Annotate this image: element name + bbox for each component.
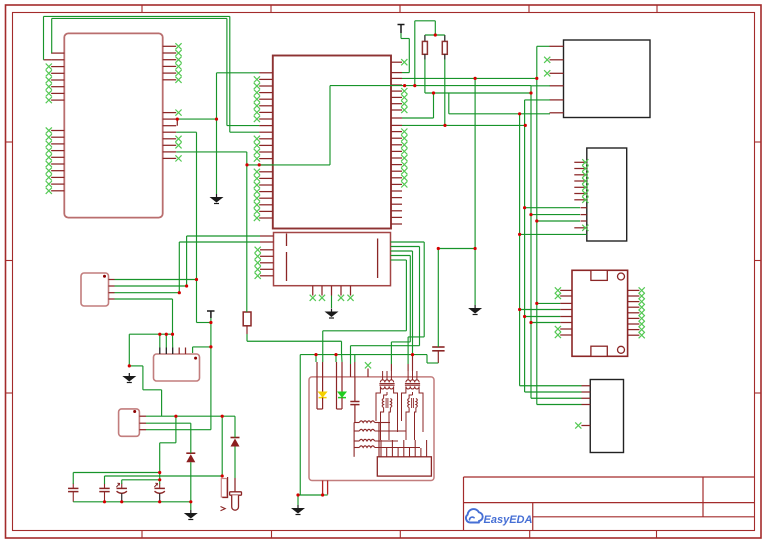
wire bundle3 to U6: [531, 397, 582, 399]
wire bundle2 to U6: [525, 391, 582, 393]
ground G2: [331, 309, 333, 312]
power module PS1 (bottom middle box): [309, 377, 434, 481]
U1 left pins upper group: [46, 53, 65, 103]
wire U2 sub pin242 from left: [179, 242, 260, 293]
inductor winding L4: [359, 446, 374, 448]
wire U2 sub right pin255: [391, 256, 411, 365]
wire bundle3 to U4: [531, 214, 580, 216]
wire U2 sub pin236 from left: [187, 236, 260, 286]
wire U2 sub right pin251: [391, 251, 413, 355]
wire U7 pin2 net: [115, 285, 187, 287]
U7 right pins: [109, 280, 115, 300]
capacitor C2: [99, 487, 109, 489]
module output connector block: [377, 457, 431, 476]
wire T power top to U2 pin72: [401, 33, 409, 73]
wire U7 pin3 net: [115, 292, 180, 294]
wire bundle2 to U5: [525, 316, 561, 318]
TP1 red lead: [234, 478, 236, 492]
wire U2 pin125 bundle2 join: [524, 124, 526, 125]
U2 lower section left X pins: [255, 247, 274, 279]
IC U7 (small 4-pin): [81, 273, 109, 306]
module bottom pins: [322, 481, 324, 495]
title block: [464, 477, 755, 531]
wire U2 pin165 bus over IC: [247, 86, 405, 165]
U2 lower section left wired pin stubs: [260, 235, 274, 237]
wire ground rail bottom left: [73, 502, 191, 510]
wire U8 pin2 to D1: [146, 423, 191, 453]
wire Q1 pin5 to VCC vertical: [193, 347, 211, 353]
wire bundle1 to U6: [520, 385, 582, 387]
wire U2 sub right pin242: [391, 242, 425, 364]
U5 bottom right circle: [618, 346, 625, 353]
wire bundle3 to U5: [531, 322, 560, 324]
wire U2 sub mid pin to G2: [331, 296, 333, 309]
U8 right pins: [139, 416, 146, 430]
wire bundle4 down: [536, 78, 538, 404]
wire bundle2 to U4: [525, 207, 580, 209]
ground G4: [128, 373, 130, 376]
wire U1 pin152 to R3: [176, 152, 247, 312]
wire U7 pin4 to oscillator rail: [115, 299, 173, 334]
U4 left pins with no-connect marks: [574, 159, 588, 231]
wire resistor tops tie: [425, 34, 445, 36]
U5 left pins: [555, 287, 572, 338]
resistor R2: [444, 35, 446, 41]
inductor winding L3: [359, 439, 374, 441]
wire VCC mid vertical: [210, 318, 212, 430]
wire bundle4 to U4: [537, 220, 580, 222]
wire C3 branch: [122, 480, 160, 484]
wire R2 bottom lead: [444, 60, 446, 126]
module no-connect pin: [367, 369, 369, 378]
wire module top rail: [300, 355, 438, 495]
resistor R3: [243, 312, 251, 326]
wire U1 pin1 from top rail: [52, 18, 260, 125]
wire G4 branch to U8 area: [129, 366, 161, 416]
wire D2 anode down: [234, 447, 236, 479]
power symbol VCC mid (T bar): [207, 311, 215, 318]
wire C5 top feed: [437, 249, 439, 348]
wire bus2 to top right: [405, 85, 531, 87]
wire U1 pin119 to vertical: [177, 118, 216, 120]
wire U2 pin125 long net: [402, 124, 525, 126]
U1 pin jog wire (red): [176, 119, 178, 126]
power symbol VCC top (T bar): [398, 25, 405, 34]
R3 bottom lead: [246, 326, 248, 334]
U1 right pins upper group: [163, 43, 182, 83]
IC U2 (middle large IC): [273, 56, 391, 229]
U2 lower section inner dashed lines: [286, 234, 288, 282]
wire Q1 pin1 stem: [159, 334, 161, 347]
resistor R1: [424, 35, 426, 41]
svg-text:EasyEDA: EasyEDA: [484, 514, 533, 526]
wire bundle4 to U6: [537, 404, 582, 406]
ground G6: [297, 505, 299, 508]
LED D4 (green): [336, 362, 338, 409]
U2 lower section bottom pins: [310, 286, 354, 301]
connector U4 (right middle black box): [587, 148, 627, 241]
wire C1 branch: [73, 416, 176, 484]
IC U8 (small 3-pin regulator): [119, 409, 140, 436]
transformer T1: [382, 371, 384, 380]
wire U2 sub right pin260: [323, 260, 407, 362]
U2 left pins: [254, 73, 273, 221]
ground G3: [474, 305, 476, 308]
wire U3 pin85 down bundle3: [531, 86, 550, 398]
ground G5: [190, 510, 192, 513]
U6 no-connect pin: [581, 425, 590, 427]
wire R3 net to module: [247, 334, 342, 362]
connector U6 (bottom right black box): [590, 380, 623, 453]
U8 pin-1 marker dot: [133, 410, 136, 413]
U6 wired pin stubs: [582, 385, 591, 387]
U1 left pins lower group: [46, 127, 65, 193]
capacitor C6 (inside module): [354, 377, 356, 402]
capacitor C4 (polarized): [155, 487, 165, 489]
wire Q1 pin2 stem: [165, 334, 167, 347]
wire long vertical to G3: [438, 78, 475, 305]
module internal connection lines: [354, 422, 427, 457]
EasyEDA logo cloud: [466, 509, 483, 522]
wire U1 pin2 from top rail: [44, 16, 260, 132]
capacitor C5: [432, 346, 444, 348]
connector U3 (top right black box): [564, 40, 651, 118]
wire U2 pin loop left: [217, 73, 260, 194]
Q1 pin-1 marker dot: [194, 357, 197, 360]
IC U5 (module with mounting circles): [572, 270, 628, 356]
Q1 top pins: [160, 348, 186, 355]
U5 bottom tab: [591, 346, 607, 356]
U3 left pins: [544, 46, 563, 113]
inductor winding L1: [359, 421, 374, 423]
test point TP1 (cylinder): [230, 492, 242, 495]
U5 top tab: [591, 270, 607, 280]
wire U3 pin99 down bundle2: [525, 100, 550, 392]
wire Q1 pin3 stem: [172, 334, 174, 347]
wire bundle1 to U4: [520, 233, 587, 235]
oscillator Q1 (rounded box): [154, 354, 200, 381]
capacitor C3 (polarized): [117, 487, 127, 489]
U5 top right circle: [618, 273, 625, 280]
U7 pin-1 marker dot: [103, 275, 106, 278]
wire module left leads: [316, 355, 355, 362]
wire U7 pin1 net: [115, 279, 197, 281]
wire U2 sub right pin246: [351, 247, 420, 365]
wire bundle1 to U5: [520, 309, 561, 311]
LED D3 (yellow): [316, 362, 318, 409]
U1 right pins lower group: [163, 110, 182, 162]
wire bus1 right: [402, 46, 550, 78]
transformer top leads (red): [351, 355, 413, 377]
wire oscillator rail: [129, 334, 172, 366]
wire U2 pin118 net: [402, 93, 434, 118]
transformer T2: [407, 371, 409, 380]
diode D1: [186, 452, 195, 454]
capacitor C1: [68, 487, 78, 489]
U2 right pins: [391, 59, 407, 224]
inductor winding L2: [359, 429, 374, 431]
IC U2 lower section box: [274, 233, 391, 286]
wire D1 anode down: [190, 462, 192, 502]
U1 pin row 59.8 extended stub: [44, 59, 52, 61]
U4 wired pin stubs: [581, 207, 587, 209]
diode D2: [231, 437, 240, 439]
wire bundle4 to U5: [537, 302, 560, 304]
U5 right pins: [628, 287, 645, 338]
wire U8 pin1 to D2: [146, 416, 235, 437]
wire bundle1 down: [519, 114, 521, 386]
wire U8 pin3 net: [146, 429, 211, 431]
wire C2 branch: [105, 416, 223, 484]
IC U1 (left large IC): [64, 33, 162, 217]
wire R1 bottom net: [425, 60, 550, 114]
wire resistor top loop: [415, 21, 436, 86]
wire module ground: [298, 495, 328, 505]
wire U1 pin132 to U7 net: [176, 132, 211, 322]
ground G1: [216, 194, 218, 197]
fuse holder F1 (hook symbol): [221, 479, 227, 498]
